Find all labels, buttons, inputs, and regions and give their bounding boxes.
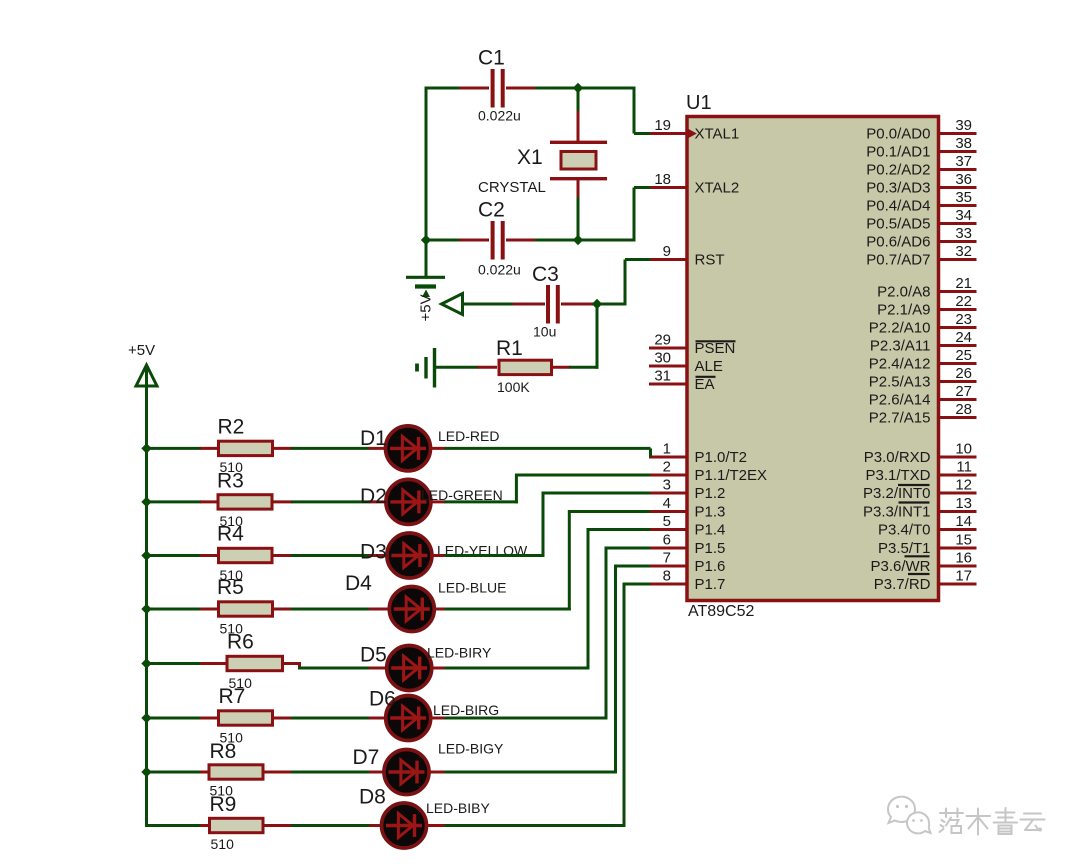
wire row 7 to chip	[616, 565, 651, 568]
wire D2 left lead	[369, 500, 387, 503]
wire R9 right lead	[264, 824, 293, 827]
svg-text:D6: D6	[369, 688, 396, 711]
watermark wechat icon	[888, 797, 930, 834]
wire to pin18 vertical	[633, 188, 636, 242]
resistor R8 body	[209, 765, 263, 779]
wire D5 left lead	[369, 667, 388, 670]
svg-text:35: 35	[955, 189, 972, 206]
svg-text:8: 8	[663, 568, 671, 585]
wire osc top right segment	[535, 87, 636, 90]
wire to pin19 horizontal	[634, 132, 650, 135]
wire +5V rail vertical	[145, 368, 148, 827]
svg-text:5: 5	[663, 513, 671, 530]
wire R2 left lead	[200, 447, 218, 450]
wire D4 left lead	[369, 608, 391, 611]
svg-text:X1: X1	[517, 146, 543, 169]
svg-text:P0.2/AD2: P0.2/AD2	[866, 162, 930, 179]
wire R9 to D8	[291, 824, 370, 827]
watermark text 落木青云	[940, 808, 1045, 835]
svg-text:13: 13	[955, 495, 972, 512]
wire R1 right lead	[553, 366, 571, 369]
wire row 4 to corner	[445, 608, 571, 611]
svg-text:P0.1/AD1: P0.1/AD1	[866, 144, 930, 161]
svg-text:R4: R4	[217, 523, 244, 546]
svg-text:36: 36	[955, 171, 972, 188]
pin 38 stub (P0.1/AD1)	[938, 150, 977, 153]
power arrow +5V (C3 net, pointing left)	[442, 294, 463, 315]
svg-text:24: 24	[955, 329, 972, 346]
wire row 6 vertical	[605, 547, 608, 720]
wire row 2 to chip	[516, 474, 650, 477]
overline EA	[696, 376, 716, 378]
pin 5 stub (P1.4)	[649, 528, 687, 531]
svg-text:D7: D7	[353, 746, 380, 769]
svg-text:11: 11	[956, 459, 972, 476]
wire row 3 to chip	[543, 492, 650, 495]
wire D1 right lead	[429, 447, 446, 450]
wire crystal top lead	[577, 111, 580, 142]
svg-text:D8: D8	[359, 786, 386, 809]
svg-text:P2.3/A11: P2.3/A11	[870, 338, 931, 355]
resistor R1 body	[499, 360, 552, 374]
wire row 4 to chip	[569, 510, 650, 513]
LED D2	[386, 479, 431, 524]
svg-text:P3.0/RXD: P3.0/RXD	[864, 449, 931, 466]
svg-text:23: 23	[955, 311, 972, 328]
svg-text:U1: U1	[686, 92, 712, 114]
junction rail node row 3	[141, 550, 151, 560]
pin 29 stub (PSEN)	[649, 347, 687, 350]
svg-text:22: 22	[955, 293, 972, 310]
overline INT0	[898, 484, 930, 486]
wire D4 right lead	[433, 608, 446, 611]
svg-text:P1.3: P1.3	[695, 504, 726, 521]
wire RST node down to R1	[596, 304, 599, 369]
wire R8 to D7	[291, 771, 370, 774]
wire to pin18 horizontal	[634, 186, 650, 189]
svg-text:D1: D1	[360, 427, 387, 450]
svg-text:LED-BIRG: LED-BIRG	[433, 702, 499, 718]
svg-text:33: 33	[955, 225, 972, 242]
LED D4	[389, 587, 434, 632]
wire R3 right lead	[273, 500, 293, 503]
svg-text:ALE: ALE	[695, 358, 723, 375]
overline WR	[905, 555, 930, 557]
capacitor C2 plates	[493, 221, 503, 260]
svg-text:C2: C2	[478, 199, 505, 222]
svg-text:510: 510	[211, 836, 235, 852]
svg-text:P0.5/AD5: P0.5/AD5	[866, 216, 930, 233]
wire R5 to D4	[291, 608, 370, 611]
svg-text:25: 25	[955, 347, 972, 364]
svg-text:28: 28	[955, 401, 972, 418]
svg-text:12: 12	[955, 477, 972, 494]
wire R2 to D1	[291, 447, 370, 450]
svg-text:P2.6/A14: P2.6/A14	[869, 392, 931, 409]
wire rail to R5	[147, 608, 202, 611]
wire crystal top lead green	[577, 88, 580, 112]
junction osc bottom left node	[421, 235, 431, 245]
wire row 6 to corner	[445, 717, 608, 720]
svg-text:P2.7/A15: P2.7/A15	[869, 410, 931, 427]
wire R4 right lead	[273, 554, 293, 557]
wire C3 left wire	[463, 303, 515, 306]
wire rail to R4	[147, 554, 202, 557]
junction osc top node	[573, 83, 583, 93]
wire D5 right lead	[430, 667, 445, 670]
wire row 7 vertical	[614, 565, 617, 774]
svg-text:R8: R8	[210, 740, 237, 763]
resistor R9 body	[210, 818, 264, 832]
svg-text:P2.5/A13: P2.5/A13	[869, 374, 931, 391]
pin 36 stub (P0.3/AD3)	[938, 186, 977, 189]
power symbol +5V (battery)	[406, 277, 445, 297]
wire C2 left lead	[460, 239, 490, 242]
wire row 5 vertical	[587, 528, 590, 670]
pin 30 stub (ALE)	[649, 365, 687, 368]
wire D1 left lead	[369, 447, 387, 450]
svg-text:P1.6: P1.6	[695, 558, 726, 575]
pin 18 stub (XTAL2)	[649, 186, 687, 189]
svg-text:29: 29	[654, 332, 671, 349]
wire row 2 to corner	[445, 500, 518, 503]
svg-text:16: 16	[955, 550, 972, 567]
svg-text:R7: R7	[219, 685, 246, 708]
svg-text:AT89C52: AT89C52	[688, 603, 755, 620]
wire R8 left lead	[200, 771, 209, 774]
svg-text:R6: R6	[227, 631, 254, 654]
resistor R5 body	[219, 602, 273, 616]
junction rail node row 2	[141, 497, 151, 507]
svg-text:P0.6/AD6: P0.6/AD6	[866, 234, 930, 251]
wire R9 left lead	[200, 824, 209, 827]
wire row 8 to corner	[445, 824, 626, 827]
svg-text:6: 6	[663, 532, 671, 549]
pin 27 stub (P2.6/A14)	[938, 398, 977, 401]
pin 25 stub (P2.4/A12)	[938, 362, 977, 365]
pin 15 stub (P3.5/T1)	[938, 547, 977, 550]
wire R3 left lead	[200, 500, 218, 503]
svg-text:P1.5: P1.5	[695, 540, 726, 557]
svg-text:P3.7/RD: P3.7/RD	[874, 576, 931, 593]
wire row 8 vertical	[623, 583, 626, 828]
svg-text:7: 7	[663, 550, 671, 567]
svg-text:27: 27	[955, 383, 972, 400]
svg-text:P2.0/A8: P2.0/A8	[877, 284, 930, 301]
svg-text:RST: RST	[695, 252, 725, 269]
svg-text:32: 32	[955, 243, 972, 260]
junction rail node row 5	[141, 658, 151, 668]
pin 31 stub (EA)	[649, 383, 687, 386]
pin 19 stub (XTAL1)	[649, 132, 687, 135]
pin 8 stub (P1.7)	[649, 583, 687, 586]
pin 9 stub (RST)	[649, 258, 687, 261]
resistor R6 body	[227, 656, 283, 670]
wire C2 right lead	[506, 239, 536, 242]
wire row 8 to chip	[624, 583, 650, 586]
power arrow +5V (rail, pointing up)	[136, 365, 157, 386]
svg-text:P1.0/T2: P1.0/T2	[695, 449, 748, 466]
svg-text:P1.4: P1.4	[695, 522, 726, 539]
svg-text:CRYSTAL: CRYSTAL	[478, 179, 546, 196]
pin 23 stub (P2.2/A10)	[938, 326, 977, 329]
pin 21 stub (P2.0/A8)	[938, 290, 977, 293]
svg-text:P3.6/WR: P3.6/WR	[870, 558, 930, 575]
svg-text:XTAL2: XTAL2	[695, 180, 740, 197]
wire D3 left lead	[369, 554, 388, 557]
svg-text:P1.1/T2EX: P1.1/T2EX	[695, 467, 768, 484]
wire row 2 vertical	[515, 474, 518, 504]
svg-text:P1.2: P1.2	[695, 485, 726, 502]
wire row 6 to chip	[606, 547, 650, 550]
resistor R3 body	[218, 495, 272, 509]
wire D6 right lead	[429, 717, 445, 720]
wire rail to R3	[147, 500, 202, 503]
svg-text:P0.0/AD0: P0.0/AD0	[866, 126, 930, 143]
pin 24 stub (P2.3/A11)	[938, 344, 977, 347]
wire row 1 jog down	[649, 448, 652, 457]
pin 33 stub (P0.6/AD6)	[938, 240, 977, 243]
svg-text:37: 37	[955, 153, 972, 170]
svg-text:XTAL1: XTAL1	[695, 126, 740, 143]
pin 32 stub (P0.7/AD7)	[938, 258, 977, 261]
svg-text:LED-BIBY: LED-BIBY	[426, 800, 490, 816]
svg-text:10: 10	[955, 441, 972, 458]
svg-text:2: 2	[663, 459, 671, 476]
wire D8 left lead	[369, 824, 383, 827]
svg-text:P2.2/A10: P2.2/A10	[869, 320, 931, 337]
pin 3 stub (P1.2)	[649, 492, 687, 495]
overline INT1	[899, 501, 930, 503]
svg-text:D3: D3	[360, 541, 387, 564]
pin 4 stub (P1.3)	[649, 510, 687, 513]
wire row 4 vertical	[568, 510, 571, 611]
wire C3 right lead	[561, 303, 598, 306]
wire ground to R1	[436, 366, 479, 369]
wire R7 to D6	[291, 717, 370, 720]
svg-text:15: 15	[955, 532, 972, 549]
chip U1 AT89C52 body	[687, 117, 939, 601]
pin 34 stub (P0.5/AD5)	[938, 222, 977, 225]
LED D3	[387, 533, 432, 578]
wire R7 left lead	[200, 717, 218, 720]
pin 37 stub (P0.2/AD2)	[938, 168, 977, 171]
pin 6 stub (P1.5)	[649, 547, 687, 550]
junction rail node row 7	[141, 767, 151, 777]
wire R1 left lead	[478, 366, 498, 369]
overline RD	[908, 573, 930, 575]
svg-text:D5: D5	[360, 644, 387, 667]
svg-text:R3: R3	[217, 470, 244, 493]
wire R5 right lead	[273, 608, 292, 611]
LED D1	[386, 426, 431, 471]
wire row 5 to corner	[445, 667, 590, 670]
svg-text:30: 30	[654, 350, 671, 367]
pin 17 stub (P3.7/RD)	[938, 583, 977, 586]
svg-text:9: 9	[663, 243, 671, 260]
junction rail node row 6	[141, 713, 151, 723]
svg-text:14: 14	[955, 513, 972, 530]
svg-text:4: 4	[663, 495, 671, 512]
svg-text:P1.7: P1.7	[695, 576, 726, 593]
wire R4 left lead	[200, 554, 218, 557]
wire rail to R9	[147, 824, 202, 827]
svg-text:C1: C1	[478, 47, 505, 70]
junction rail node row 1	[141, 443, 151, 453]
pin 12 stub (P3.2/INT0)	[938, 492, 977, 495]
svg-text:C3: C3	[532, 263, 559, 286]
LED D5	[387, 646, 432, 691]
wire C3 left lead	[513, 303, 545, 306]
svg-text:31: 31	[654, 368, 671, 385]
svg-text:R9: R9	[210, 793, 237, 816]
ground symbol	[417, 348, 435, 388]
capacitor C1 plates	[493, 69, 503, 108]
wire rail to R2	[147, 447, 202, 450]
pin 2 stub (P1.1/T2EX)	[649, 474, 687, 477]
svg-text:LED-BIRY: LED-BIRY	[427, 645, 492, 661]
pin 28 stub (P2.7/A15)	[938, 416, 977, 419]
wire R6 to D5	[298, 667, 370, 670]
wire D7 left lead	[369, 771, 386, 774]
svg-text:P2.1/A9: P2.1/A9	[877, 302, 930, 319]
svg-text:EA: EA	[695, 376, 715, 393]
svg-text:+5V: +5V	[128, 342, 155, 359]
svg-text:21: 21	[955, 275, 972, 292]
svg-text:P3.1/TXD: P3.1/TXD	[865, 467, 930, 484]
wire RST vertical	[624, 260, 627, 306]
pin 7 stub (P1.6)	[649, 565, 687, 568]
crystal X1	[550, 142, 607, 178]
wire D2 right lead	[429, 500, 445, 503]
wire to pin19 vertical	[633, 87, 636, 134]
svg-text:P3.2/INT0: P3.2/INT0	[863, 485, 931, 502]
pin 19 input arrow	[689, 129, 697, 138]
wire D7 right lead	[428, 771, 446, 774]
pin 26 stub (P2.5/A13)	[938, 380, 977, 383]
svg-text:0.022u: 0.022u	[478, 108, 521, 124]
pin 13 stub (P3.3/INT1)	[938, 510, 977, 513]
svg-text:26: 26	[955, 365, 972, 382]
svg-text:10u: 10u	[533, 324, 556, 340]
svg-text:1: 1	[663, 441, 671, 458]
LED D7	[384, 750, 429, 795]
wire D6 left lead	[369, 717, 387, 720]
resistor R7 body	[219, 711, 273, 725]
LED D8	[382, 803, 427, 848]
svg-text:0.022u: 0.022u	[478, 262, 521, 278]
svg-text:P0.4/AD4: P0.4/AD4	[866, 198, 930, 215]
svg-text:P3.5/T1: P3.5/T1	[878, 540, 931, 557]
svg-text:34: 34	[955, 207, 972, 224]
wire crystal bottom lead green	[577, 197, 580, 242]
junction RST node	[592, 299, 602, 309]
pin 1 stub (P1.0/T2)	[649, 456, 687, 459]
wire R6 left lead	[200, 662, 227, 665]
wire row 3 to corner	[445, 554, 545, 557]
wire C1 left lead	[460, 87, 490, 90]
wire row 7 to corner	[445, 771, 618, 774]
wire row 1 to chip	[445, 447, 651, 450]
capacitor C3 plates	[548, 285, 558, 324]
wire RST horizontal	[625, 258, 650, 261]
pin 16 stub (P3.6/WR)	[938, 565, 977, 568]
svg-text:+5V: +5V	[418, 294, 435, 321]
svg-text:R2: R2	[218, 416, 245, 439]
pin 10 stub (P3.0/RXD)	[938, 456, 977, 459]
resistor R4 body	[219, 548, 273, 562]
wire R6 right lead	[283, 662, 300, 665]
wire rail to R7	[147, 717, 202, 720]
wire osc bottom left segment	[426, 239, 461, 242]
wire R5 left lead	[200, 608, 218, 611]
svg-text:P3.4/T0: P3.4/T0	[878, 522, 931, 539]
svg-text:38: 38	[955, 135, 972, 152]
wire R4 to D3	[291, 554, 370, 557]
overline PSEN	[696, 340, 736, 342]
wire R1 to RST vertical	[569, 366, 599, 369]
wire C1 right lead	[506, 87, 536, 90]
svg-text:R1: R1	[496, 337, 523, 360]
svg-text:LED-RED: LED-RED	[438, 428, 499, 444]
svg-text:39: 39	[955, 117, 972, 134]
wire R8 right lead	[264, 771, 293, 774]
svg-text:3: 3	[663, 477, 671, 494]
pin 11 stub (P3.1/TXD)	[938, 474, 977, 477]
pin 39 stub (P0.0/AD0)	[938, 132, 977, 135]
wire R3 to D2	[291, 500, 370, 503]
svg-text:19: 19	[654, 117, 671, 134]
LED D6	[386, 696, 431, 741]
svg-text:18: 18	[654, 171, 671, 188]
wire R7 right lead	[273, 717, 292, 720]
wire row 3 vertical	[542, 492, 545, 558]
resistor R2 body	[219, 441, 273, 455]
wire osc top left segment	[426, 87, 461, 90]
junction osc bottom node	[573, 235, 583, 245]
pin 14 stub (P3.4/T0)	[938, 528, 977, 531]
svg-text:P0.3/AD3: P0.3/AD3	[866, 180, 930, 197]
junction rail node row 4	[141, 604, 151, 614]
wire D8 right lead	[425, 824, 446, 827]
svg-text:R5: R5	[217, 576, 244, 599]
svg-text:P2.4/A12: P2.4/A12	[869, 356, 931, 373]
svg-text:D4: D4	[345, 572, 372, 595]
wire rail to R6	[147, 662, 202, 665]
wire D3 right lead	[430, 554, 445, 557]
pin 22 stub (P2.1/A9)	[938, 308, 977, 311]
svg-text:LED-BIGY: LED-BIGY	[438, 741, 504, 757]
svg-text:P0.7/AD7: P0.7/AD7	[866, 252, 930, 269]
svg-text:PSEN: PSEN	[695, 340, 736, 357]
svg-text:D2: D2	[360, 485, 387, 508]
svg-text:17: 17	[955, 568, 972, 585]
svg-text:LED-BLUE: LED-BLUE	[438, 580, 506, 596]
pin 35 stub (P0.4/AD4)	[938, 204, 977, 207]
wire R6 jog	[298, 662, 301, 670]
wire crystal bottom lead	[577, 179, 580, 198]
wire R2 right lead	[273, 447, 292, 450]
wire RST node to corner	[597, 303, 627, 306]
svg-text:P3.3/INT1: P3.3/INT1	[863, 504, 931, 521]
wire row 5 to chip	[588, 528, 650, 531]
wire rail to R8	[147, 771, 202, 774]
svg-text:100K: 100K	[497, 379, 530, 395]
wire osc bottom right segment	[535, 239, 636, 242]
wire osc left vertical	[425, 87, 428, 278]
